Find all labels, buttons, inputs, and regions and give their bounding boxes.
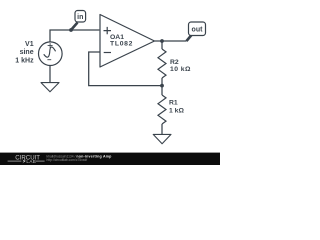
voltage source V1 minus mark: [47, 59, 51, 61]
svg-text:TL082: TL082: [110, 41, 133, 48]
op-amp inverting pin - symbol: [104, 52, 111, 54]
svg-text:LAB: LAB: [26, 159, 36, 164]
voltage source V1 plus mark: [48, 43, 53, 48]
wire from R2 bottom to mid node: [161, 78, 163, 86]
footer logo right rule: [36, 160, 45, 162]
footer logo left rule: [8, 160, 22, 162]
svg-text:sine: sine: [20, 49, 34, 56]
svg-text:out: out: [192, 27, 204, 34]
flag pole for out label: [187, 35, 192, 41]
wire from R1 bottom to ground: [161, 124, 163, 135]
svg-text:in: in: [77, 14, 83, 21]
node junction dot at IN wire: [69, 28, 73, 32]
ground symbol below V1: [41, 83, 59, 92]
wire from V1 top to op-amp non-inverting input: [50, 30, 99, 43]
voltage source V1 sine wave: [42, 46, 56, 58]
svg-text:10 kΩ: 10 kΩ: [170, 66, 191, 73]
wire from output node down to R2: [161, 41, 163, 49]
node out flag box: [189, 22, 206, 36]
node junction dot between R2 and R1: [160, 84, 164, 88]
svg-text:1 kHz: 1 kHz: [15, 57, 34, 64]
footer bar: [0, 153, 220, 165]
wire feedback from inverting input to mid node: [89, 52, 162, 86]
voltage source V1 circle: [39, 42, 63, 66]
svg-text:V1: V1: [25, 41, 34, 48]
op-amp non-inverting pin + symbol: [104, 27, 112, 34]
wire from V1 bottom to ground: [49, 65, 51, 82]
wire from mid node down to R1: [161, 86, 163, 95]
resistor R2 zigzag: [158, 49, 166, 78]
svg-text:1 kΩ: 1 kΩ: [169, 107, 184, 114]
op-amp OA1 triangle: [100, 15, 155, 68]
svg-text:http://circuitlab.com/c75xxdf: http://circuitlab.com/c75xxdf: [47, 158, 88, 162]
footer logo lightning bolt: [22, 159, 26, 164]
node junction dot at op-amp output: [160, 39, 164, 43]
resistor R1 zigzag: [158, 95, 166, 124]
svg-text:R1: R1: [169, 100, 178, 107]
flag pole for in label: [71, 23, 78, 31]
ground symbol below R1: [153, 134, 171, 143]
node in flag box: [75, 11, 86, 23]
wire from op-amp output to out flag: [155, 40, 187, 42]
